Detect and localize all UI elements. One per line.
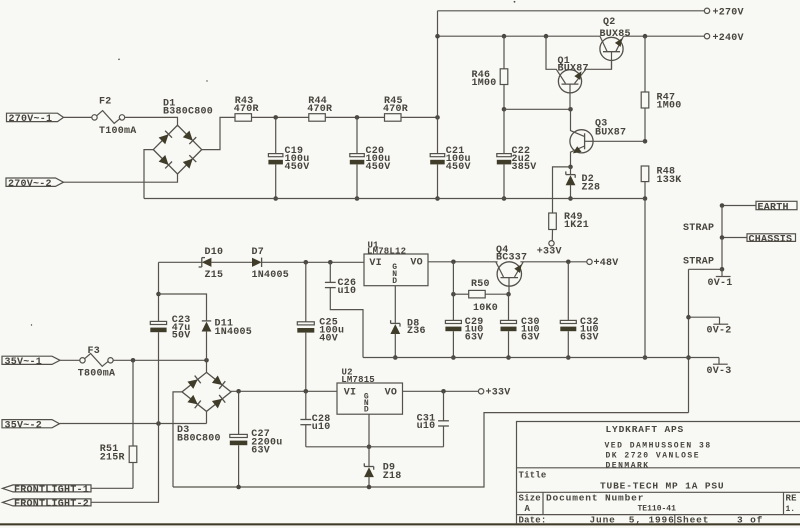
node Q3 emitter [568, 165, 573, 170]
svg-text:B80C800: B80C800 [177, 434, 221, 445]
regulator U1 LM78L12 [364, 254, 428, 286]
wire jog to D11 [159, 294, 207, 321]
svg-text:EARTH: EARTH [758, 202, 789, 213]
strap CHASSIS-0V1 [721, 238, 723, 270]
node C32 bottom [566, 355, 571, 360]
terminal +33V (R49) [549, 241, 554, 246]
svg-text:1.: 1. [786, 505, 796, 514]
node C29 top [451, 260, 456, 265]
svg-text:T800mA: T800mA [78, 369, 116, 380]
wire U2 GND [368, 414, 370, 447]
connector FRONTLIGHT-2 [3, 499, 92, 506]
speck [118, 59, 120, 61]
svg-text:BUX85: BUX85 [600, 29, 631, 40]
svg-text:D7: D7 [252, 247, 265, 258]
svg-text:CHASSIS: CHASSIS [749, 235, 793, 246]
wire U1 GND to D8 [394, 286, 396, 324]
node Q1 collector drop [544, 34, 549, 39]
transistor Q3 BUX87 [570, 130, 593, 153]
wire R43 to node [252, 116, 309, 118]
resistor R51 [132, 360, 134, 446]
capacitor C23 [150, 321, 166, 324]
svg-text:Document Number: Document Number [546, 493, 644, 504]
resistor R48 [641, 166, 649, 182]
svg-text:35V~-1: 35V~-1 [5, 357, 43, 368]
svg-text:Z28: Z28 [582, 182, 601, 193]
wire 0V bus to LV ground [173, 413, 689, 487]
capacitor C26 [329, 262, 331, 282]
node C19 top [273, 115, 278, 120]
svg-text:June 5, 1996: June 5, 1996 [590, 515, 675, 526]
transistor Q1 BUX87 [558, 70, 581, 93]
node R51 tap [131, 358, 136, 363]
node R48 line at 0V rail [643, 355, 648, 360]
svg-text:Sheet: Sheet [677, 515, 710, 526]
svg-text:VED DAMHUSSOEN 38: VED DAMHUSSOEN 38 [605, 442, 712, 451]
svg-text:+33V: +33V [537, 246, 562, 257]
resistor R50 [453, 293, 468, 295]
svg-text:LM78L12: LM78L12 [367, 247, 406, 257]
node C31 top [441, 389, 446, 394]
regulator U2 LM7815 [337, 383, 403, 414]
capacitor C22 [503, 109, 505, 153]
svg-text:63V: 63V [465, 333, 484, 344]
wire FRONTLIGHT-2 riser [91, 424, 159, 503]
wire D1 right to R43 [202, 117, 235, 149]
svg-text:STRAP: STRAP [683, 256, 714, 267]
svg-text:D: D [364, 406, 369, 415]
node R47 top [643, 34, 648, 39]
wire Q3 base [593, 140, 645, 142]
node C29 bottom [451, 355, 456, 360]
wire R51 to FRONTLIGHT-1 [91, 487, 133, 489]
resistor R49 [553, 167, 571, 213]
svg-text:F2: F2 [99, 96, 112, 107]
wire 35V~-1 to F3 [60, 359, 80, 361]
node 0V-3 [686, 355, 691, 360]
wire 0V-1 jog [689, 268, 723, 270]
diode D11 1N4005 [202, 320, 211, 322]
svg-text:470R: 470R [307, 104, 332, 115]
svg-text:270V~-1: 270V~-1 [9, 114, 53, 125]
svg-text:FRONTLIGHT-2: FRONTLIGHT-2 [14, 499, 89, 510]
capacitor C31 [443, 391, 445, 421]
title block frame [517, 422, 800, 524]
sheet bottom border [0, 523, 800, 525]
connector 270V~-1 [7, 113, 64, 121]
fuse F2 [92, 115, 97, 120]
svg-text:u10: u10 [338, 286, 357, 297]
svg-text:63V: 63V [521, 333, 540, 344]
svg-text:470R: 470R [383, 104, 408, 115]
wire D3 right to U2 VI [231, 390, 337, 392]
resistor R46 [503, 36, 505, 69]
node C25 top [304, 260, 309, 265]
node D11 jog [156, 292, 161, 297]
node Q1 base [502, 107, 507, 112]
node C20 bottom [355, 196, 360, 201]
svg-text:VO: VO [385, 388, 398, 399]
node C19 bottom [273, 196, 278, 201]
svg-text:50V: 50V [172, 331, 191, 342]
node D9 bottom [367, 485, 372, 490]
capacitor C20 [356, 117, 358, 153]
svg-text:10K0: 10K0 [473, 303, 498, 314]
node EARTH strap [720, 203, 725, 208]
svg-text:1M00: 1M00 [657, 100, 682, 111]
node C21 bottom [435, 196, 440, 201]
wire F2 to bridge D1 [125, 117, 178, 125]
wire U2 VO to +33V [403, 390, 479, 392]
node CHASSIS strap [720, 235, 725, 240]
wire R48 node to 0V rail [644, 199, 646, 358]
svg-text:TUBE-TECH MP 1A PSU: TUBE-TECH MP 1A PSU [600, 481, 724, 492]
svg-text:TE110-41: TE110-41 [638, 505, 677, 514]
svg-text:0V-1: 0V-1 [708, 278, 733, 289]
wire strap bus vertical [688, 269, 690, 412]
wire D7 to U1 VI [261, 261, 364, 263]
svg-text:450V: 450V [285, 162, 310, 173]
wire R44 to R45 [325, 116, 384, 118]
capacitor C25 [305, 262, 307, 322]
svg-text:Size: Size [519, 494, 541, 504]
capacitor C19 [275, 117, 277, 153]
connector FRONTLIGHT-1 [3, 485, 92, 492]
connector 35V~-2 [2, 420, 60, 428]
svg-text:F3: F3 [88, 346, 101, 357]
svg-text:1M00: 1M00 [472, 78, 497, 89]
wire D10 to D7 [211, 261, 252, 263]
svg-text:FRONTLIGHT-1: FRONTLIGHT-1 [14, 485, 89, 496]
svg-text:BUX87: BUX87 [558, 63, 589, 74]
resistor R47 [644, 36, 646, 92]
svg-text:LYDKRAFT APS: LYDKRAFT APS [606, 424, 685, 435]
svg-text:+240V: +240V [713, 33, 744, 44]
capacitor C32 [567, 262, 569, 321]
node Q3 base / divider [643, 139, 648, 144]
svg-text:D10: D10 [205, 247, 224, 258]
wire F3 to D3 top [113, 359, 206, 361]
wire D3 top stub [206, 360, 208, 372]
terminal +48V [587, 259, 592, 264]
wire Q2 emitter to +240V [624, 35, 705, 37]
node Q4 base [506, 292, 511, 297]
zener D2 Z28 [570, 167, 572, 175]
node +270V column [435, 115, 440, 120]
capacitor C30 [508, 294, 510, 320]
node C22 bottom [502, 196, 507, 201]
svg-text:133K: 133K [657, 175, 682, 186]
zener D8 Z36 [391, 322, 400, 324]
bridge rectifier D1 [153, 125, 201, 174]
zener D9 Z18 [368, 447, 370, 467]
node D2 bottom [568, 196, 573, 201]
capacitor C28 [305, 391, 307, 419]
svg-text:40V: 40V [319, 333, 338, 344]
svg-text:3 of: 3 of [737, 515, 763, 526]
svg-text:VO: VO [410, 258, 423, 269]
capacitor C27 [238, 391, 240, 434]
node D8 bottom [393, 355, 398, 360]
connector 270V~-2 [6, 178, 64, 186]
node C30 bottom [506, 355, 511, 360]
svg-text:T100mA: T100mA [99, 126, 137, 137]
svg-text:Q2: Q2 [603, 17, 616, 28]
connector 35V~-1 [2, 356, 60, 364]
svg-text:1N4005: 1N4005 [252, 270, 290, 281]
node 0V-2 [686, 315, 691, 320]
node D11 bottom [204, 358, 209, 363]
svg-text:63V: 63V [251, 446, 270, 457]
diode D7 1N4005 [252, 258, 262, 267]
wire LV 0V rail [363, 357, 689, 359]
wire D3 bottom stub [206, 411, 208, 423]
svg-text:+48V: +48V [594, 258, 619, 269]
node 0V-1 [720, 267, 725, 272]
svg-text:0V-3: 0V-3 [707, 366, 732, 377]
wire D10 line left [159, 261, 202, 263]
wire Q4 emitter to +48V [520, 261, 586, 263]
node C23 bottom / FL2 [156, 421, 161, 426]
transistor Q4 BC337 [497, 262, 521, 286]
node C27 top [236, 389, 241, 394]
svg-text:D: D [392, 277, 397, 286]
svg-text:Z15: Z15 [205, 270, 224, 281]
wire HV ground rail [144, 198, 645, 200]
svg-text:R50: R50 [471, 279, 490, 290]
svg-text:+270V: +270V [713, 7, 744, 18]
svg-text:VI: VI [369, 258, 382, 269]
node Q3 collector [568, 107, 573, 112]
wire +270V rail [438, 10, 705, 12]
fuse F3 [80, 358, 85, 363]
wire 35V~-2 to D3 bottom [60, 423, 207, 425]
bridge rectifier D3 [182, 372, 231, 411]
node R48 bottom [643, 196, 648, 201]
svg-text:450V: 450V [446, 162, 471, 173]
svg-text:470R: 470R [234, 104, 259, 115]
connector CHASSIS [722, 237, 747, 239]
node C28 top [304, 389, 309, 394]
terminal 0V-3 [689, 357, 720, 359]
svg-text:1K21: 1K21 [564, 220, 589, 231]
wire C23 column top [158, 262, 160, 321]
strap EARTH-CHASSIS [721, 206, 723, 238]
svg-text:215R: 215R [100, 453, 125, 464]
wire +270V riser [437, 11, 439, 118]
svg-text:Title: Title [519, 470, 547, 480]
svg-text:Z18: Z18 [383, 471, 402, 482]
node C32 top [566, 260, 571, 265]
svg-text:385V: 385V [512, 162, 537, 173]
connector EARTH [722, 205, 756, 207]
capacitor C29 [452, 262, 454, 321]
svg-text:u10: u10 [417, 421, 436, 432]
svg-text:STRAP: STRAP [683, 223, 714, 234]
svg-text:63V: 63V [580, 333, 599, 344]
wire U2 0V sub-rail [306, 446, 444, 448]
resistor R45 [385, 114, 402, 122]
zener D10 Z15 [202, 258, 212, 267]
wire D3 left to LV ground [173, 392, 182, 487]
resistor R44 [309, 114, 326, 122]
node C27 bottom [236, 485, 241, 490]
node U2 GND rail [367, 445, 372, 450]
svg-text:35V~-2: 35V~-2 [5, 420, 43, 431]
svg-text:450V: 450V [366, 162, 391, 173]
node R46 top [502, 34, 507, 39]
svg-text:VI: VI [344, 388, 357, 399]
svg-text:B380C800: B380C800 [163, 106, 213, 117]
wire raw rail to Q2 collector [438, 35, 601, 37]
transistor Q2 BUX85 [600, 37, 623, 60]
svg-text:A: A [525, 504, 531, 514]
svg-text:LM7815: LM7815 [341, 375, 375, 385]
resistor R43 [235, 114, 252, 122]
terminal +240V [704, 34, 709, 39]
wire D1 left to ground rail [144, 150, 153, 199]
wire U1 VO to Q4 [428, 261, 498, 263]
wire Q1 base node [504, 108, 571, 110]
wire R45 to +270V node [401, 116, 438, 118]
node raw rail / riser [435, 34, 440, 39]
svg-text:BUX87: BUX87 [595, 127, 626, 138]
capacitor C21 [437, 117, 439, 153]
svg-text:Date:: Date: [519, 516, 547, 526]
svg-text:+33V: +33V [486, 388, 511, 399]
svg-text:DENMARK: DENMARK [606, 461, 650, 470]
wire C26 to 0V rail [330, 288, 363, 358]
svg-text:0V-2: 0V-2 [707, 326, 732, 337]
node C20 top [355, 115, 360, 120]
svg-text:DK 2720 VANLOSE: DK 2720 VANLOSE [606, 452, 701, 461]
wire D1 bottom to 270V~-2 line [64, 174, 178, 182]
terminal +270V [704, 8, 709, 13]
wire 270V~-1 to F2 [64, 116, 92, 118]
svg-text:RE: RE [786, 494, 798, 504]
svg-text:270V~-2: 270V~-2 [8, 179, 52, 190]
terminal 0V-1 [721, 269, 723, 277]
svg-text:Z36: Z36 [407, 326, 426, 337]
node R50 left [451, 292, 456, 297]
terminal 0V-2 [689, 316, 720, 318]
terminal +33V (U2) [478, 389, 483, 394]
svg-text:u10: u10 [312, 422, 331, 433]
svg-text:1N4005: 1N4005 [215, 327, 253, 338]
node C26 top [328, 260, 333, 265]
